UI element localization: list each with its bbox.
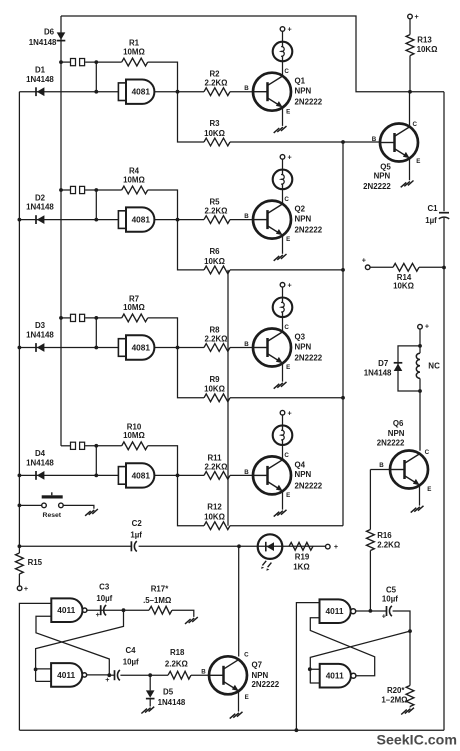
wire C4 to R18 <box>120 673 168 677</box>
pin B Q1 <box>244 85 249 92</box>
label C2 value <box>130 530 142 539</box>
wire R20 to ground <box>409 707 411 708</box>
svg-text:10KΩ: 10KΩ <box>204 257 225 266</box>
junction reset rail <box>18 504 22 508</box>
resistor R15 <box>15 553 23 574</box>
svg-text:NPN: NPN <box>252 671 269 680</box>
svg-text:10KΩ: 10KΩ <box>204 513 225 522</box>
wire Q6 base feed <box>370 469 390 471</box>
wire R13 to junction <box>408 56 412 94</box>
svg-text:2N2222: 2N2222 <box>363 182 391 191</box>
svg-text:D3: D3 <box>35 321 46 330</box>
wire emitter lead Q2 <box>282 235 284 254</box>
capacitor C1 1uf <box>439 213 449 219</box>
svg-text:NPN: NPN <box>295 87 312 96</box>
capacitor C2 1uf <box>131 541 136 551</box>
svg-text:Q4: Q4 <box>295 460 306 469</box>
lamp stage3 <box>273 298 293 318</box>
wire node drop stage2 <box>94 190 98 222</box>
label R19 value <box>293 562 309 571</box>
label R18 <box>170 648 185 657</box>
label Q7 NPN <box>252 671 269 680</box>
wire D7 branch <box>398 346 420 391</box>
wire C2 to LED <box>139 544 328 548</box>
ground reset <box>85 509 98 516</box>
svg-text:4011: 4011 <box>57 605 75 615</box>
wire output drop stage4 <box>178 475 205 525</box>
label Reset <box>43 512 62 519</box>
svg-text:R17*: R17* <box>151 585 169 594</box>
label R18 value <box>165 660 188 669</box>
label D4 value <box>26 459 54 468</box>
diode D6 <box>57 32 66 40</box>
svg-text:E: E <box>245 694 249 701</box>
svg-text:E: E <box>427 486 431 493</box>
svg-text:Q5: Q5 <box>380 162 391 171</box>
svg-text:10MΩ: 10MΩ <box>123 431 145 440</box>
wire touch-plate bus <box>60 16 62 446</box>
resistor R3 10K <box>204 138 230 146</box>
svg-text:D6: D6 <box>44 28 55 37</box>
svg-text:4081: 4081 <box>132 470 151 480</box>
nand-gate 4011 U1a <box>51 598 87 622</box>
resistor R2 2.2K <box>204 88 230 96</box>
svg-text:Q2: Q2 <box>295 205 306 214</box>
svg-text:1µf: 1µf <box>425 216 437 225</box>
label R13 value <box>417 45 438 54</box>
svg-text:1KΩ: 1KΩ <box>293 562 309 571</box>
resistor R18 2.2K <box>168 671 191 679</box>
wire lamp top lead stage2 <box>282 159 284 169</box>
wire base feed stage4 <box>230 474 253 476</box>
terminal R19 <box>326 542 339 551</box>
wire plate to node stage4 <box>85 444 122 448</box>
svg-text:+: + <box>24 584 28 593</box>
svg-text:R14: R14 <box>397 273 412 282</box>
wire cross link to U2b <box>310 631 410 683</box>
diode D2 1N4148 <box>36 215 44 224</box>
svg-text:NPN: NPN <box>388 429 405 438</box>
terminal R13 supply <box>408 12 419 21</box>
resistor R12 10K <box>204 522 230 530</box>
resistor R13 10K <box>406 35 414 56</box>
wire lamp top lead stage1 <box>282 31 284 41</box>
ground R17 <box>185 617 198 624</box>
wire touch plate feed stage3 <box>61 317 70 319</box>
svg-text:+: + <box>105 675 109 684</box>
label C1 value <box>425 216 437 225</box>
label R10 <box>127 422 142 431</box>
wire right-side rail lower <box>443 218 445 730</box>
label D6 value 1N4148 <box>29 38 57 47</box>
svg-text:1N4148: 1N4148 <box>26 75 54 84</box>
svg-text:C: C <box>244 652 249 659</box>
label Q4 2N2222 <box>295 481 323 490</box>
label C5 value <box>382 594 398 603</box>
svg-text:+: + <box>382 611 386 620</box>
wire feedback to output stage4 <box>148 446 178 476</box>
svg-text:1N4148: 1N4148 <box>158 698 186 707</box>
nand-gate 4011 U2a <box>320 599 356 623</box>
label Q5 NPN <box>374 171 391 180</box>
label D3 <box>35 321 46 330</box>
label Q7 2N2222 <box>252 680 280 689</box>
label Q2 2N2222 <box>295 226 323 235</box>
label R5 value <box>205 207 228 216</box>
resistor R4 10M feedback <box>122 186 148 194</box>
svg-text:2N2222: 2N2222 <box>377 439 405 448</box>
svg-text:10MΩ: 10MΩ <box>123 47 145 56</box>
junction touch bus stage1 <box>59 60 63 64</box>
svg-text:E: E <box>286 364 290 371</box>
svg-text:C: C <box>284 68 289 75</box>
svg-text:B: B <box>244 469 249 476</box>
wire R14 left lead <box>370 266 393 268</box>
diode D1 1N4148 <box>36 87 44 96</box>
resistor R10 10M feedback <box>122 442 148 450</box>
label Q1 NPN <box>295 87 312 96</box>
label C3 value <box>96 594 112 603</box>
svg-text:+: + <box>334 542 338 551</box>
resistor R6 10K <box>204 266 230 274</box>
svg-text:Q6: Q6 <box>393 419 404 428</box>
wire lamp to collector stage4 <box>282 445 284 460</box>
ground emitter Q1 <box>274 126 287 133</box>
wire lamp to collector stage3 <box>282 317 284 332</box>
label Q4 <box>295 460 306 469</box>
label D7 value <box>364 369 392 378</box>
label Q2 <box>295 205 306 214</box>
wire U1b input stubs <box>36 669 52 682</box>
wire Q7 collector <box>238 546 240 656</box>
wire relay top lead <box>418 329 422 353</box>
pin E Q7 <box>245 694 249 701</box>
svg-text:D1: D1 <box>35 65 46 74</box>
wire plate to node stage1 <box>85 60 122 64</box>
junction C2 node <box>18 544 22 548</box>
svg-text:2N2222: 2N2222 <box>295 481 323 490</box>
label R5 <box>209 198 220 207</box>
lamp stage4 <box>273 425 293 445</box>
svg-text:1N4148: 1N4148 <box>364 369 392 378</box>
wire gate output stage2 <box>154 218 204 222</box>
label Q7 <box>252 661 263 670</box>
label R13 <box>417 35 432 44</box>
label R8 value <box>205 335 228 344</box>
label R3 value <box>204 129 225 138</box>
svg-text:2.2KΩ: 2.2KΩ <box>205 207 228 216</box>
label Q6 2N2222 <box>377 439 405 448</box>
svg-text:2.2KΩ: 2.2KΩ <box>205 79 228 88</box>
svg-text:C: C <box>284 452 289 459</box>
ground Q7 emitter <box>230 712 243 719</box>
wire Q5 collector lead <box>409 92 411 127</box>
svg-text:R12: R12 <box>207 503 222 512</box>
wire R15 top lead <box>18 546 20 553</box>
junction left rail stage3 <box>18 346 22 350</box>
pin B Q4 <box>244 469 249 476</box>
label R15 <box>28 558 43 567</box>
wire stage3 bus link <box>230 396 345 400</box>
wire R16 upper lead <box>369 470 371 530</box>
svg-text:R9: R9 <box>209 375 220 384</box>
resistor R17 .5-1M <box>149 606 172 614</box>
wire U2a lower input link <box>310 618 374 676</box>
svg-text:B: B <box>201 668 206 675</box>
svg-text:10KΩ: 10KΩ <box>204 129 225 138</box>
svg-text:4081: 4081 <box>132 87 151 97</box>
touch plates stage3 <box>71 314 85 321</box>
svg-text:2N2222: 2N2222 <box>295 98 323 107</box>
label Q3 2N2222 <box>295 354 323 363</box>
pin E Q6 <box>427 486 431 493</box>
wire R16 lower lead <box>369 551 371 611</box>
wire diode input stage4 <box>19 474 118 476</box>
wire node drop stage4 <box>94 446 98 478</box>
capacitor C5 10uf <box>382 606 392 621</box>
wire C2 left <box>19 545 131 547</box>
wire top supply rail <box>61 16 444 92</box>
svg-text:+: + <box>287 153 291 162</box>
label R2 value <box>205 79 228 88</box>
label R11 value <box>205 462 228 471</box>
capacitor C4 10uf <box>105 670 120 684</box>
label Q5 <box>380 162 391 171</box>
diode D5 1N4148 <box>146 675 155 698</box>
junction left rail stage4 <box>18 474 22 478</box>
wire diode input stage2 <box>19 219 118 221</box>
label D6 <box>44 28 55 37</box>
resistor R14 10K <box>393 263 419 271</box>
lamp stage1 <box>273 42 293 62</box>
svg-text:10MΩ: 10MΩ <box>123 303 145 312</box>
wire Q5 emitter lead <box>409 158 411 180</box>
svg-text:R16: R16 <box>377 531 392 540</box>
svg-text:2.2KΩ: 2.2KΩ <box>165 660 188 669</box>
svg-text:E: E <box>286 492 290 499</box>
transistor Q1 NPN 2N2222 <box>253 73 291 111</box>
svg-text:+: + <box>96 610 100 619</box>
wire touch plate feed stage2 <box>61 189 70 191</box>
wire U2a top input <box>295 603 320 733</box>
ground Q6 emitter <box>411 506 424 513</box>
svg-text:10KΩ: 10KΩ <box>204 385 225 394</box>
svg-text:C: C <box>284 324 289 331</box>
label D4 <box>35 449 46 458</box>
svg-text:NPN: NPN <box>295 470 312 479</box>
pin C Q1 <box>284 68 289 75</box>
label Q5 2N2222 <box>363 182 391 191</box>
junction touch bus stage3 <box>59 316 63 320</box>
svg-text:2.2KΩ: 2.2KΩ <box>377 541 400 550</box>
svg-text:C4: C4 <box>125 646 136 655</box>
pin C Q3 <box>284 324 289 331</box>
svg-text:D5: D5 <box>163 687 174 696</box>
svg-text:4011: 4011 <box>57 670 75 680</box>
svg-text:+: + <box>287 408 291 417</box>
transistor Q6 NPN 2N2222 <box>390 451 428 489</box>
wire feedback to output stage2 <box>148 190 178 220</box>
label C4 value <box>123 658 139 667</box>
label D5 value <box>158 698 186 707</box>
wire R13 top lead <box>409 19 411 35</box>
label R14 value <box>393 282 414 291</box>
resistor R1 10M feedback <box>122 58 148 66</box>
pin E Q3 <box>286 364 290 371</box>
wire emitter lead Q4 <box>282 491 284 510</box>
wire Q7 emitter lead <box>238 691 240 712</box>
ground R20 <box>401 708 414 715</box>
switch Reset <box>42 492 64 507</box>
and-gate 4081 stage1 <box>118 80 154 104</box>
resistor R5 2.2K <box>204 216 230 224</box>
relay coil NC <box>416 353 420 378</box>
label R10 value <box>123 431 145 440</box>
svg-text:R13: R13 <box>417 35 432 44</box>
label R12 value <box>204 513 225 522</box>
ground D5 <box>141 707 154 714</box>
lamp stage2 <box>273 170 293 190</box>
junction U1b input <box>34 668 38 672</box>
wire C5 to R20 <box>393 611 412 686</box>
terminal lamp supply stage4 <box>280 408 292 417</box>
wire U1a lower input link <box>36 616 109 675</box>
transistor Q5 NPN 2N2222 <box>380 124 418 162</box>
pin C Q7 <box>244 652 249 659</box>
svg-text:1N4148: 1N4148 <box>26 331 54 340</box>
transistor Q3 NPN 2N2222 <box>253 329 291 367</box>
label R7 value <box>123 303 145 312</box>
touch plates stage1 <box>71 59 85 66</box>
wire reset right <box>63 505 94 508</box>
terminal R14 <box>362 256 370 270</box>
wire output drop stage2 <box>178 220 205 270</box>
label R1 <box>129 39 140 48</box>
svg-text:10KΩ: 10KΩ <box>393 282 414 291</box>
svg-text:C2: C2 <box>132 519 143 528</box>
wire touch plate feed stage1 <box>61 61 70 63</box>
pin E Q2 <box>286 236 290 243</box>
pin B Q7 <box>201 668 206 675</box>
svg-text:B: B <box>244 341 249 348</box>
label C2 <box>132 519 143 528</box>
diode D7 1N4148 <box>394 363 403 371</box>
ground emitter Q3 <box>274 382 287 389</box>
label Q6 NPN <box>388 429 405 438</box>
resistor R19 1K <box>289 542 313 550</box>
label D1 <box>35 65 46 74</box>
svg-text:1N4148: 1N4148 <box>26 203 54 212</box>
pin E Q4 <box>286 492 290 499</box>
terminal lamp supply stage1 <box>280 25 292 34</box>
label R16 value <box>377 541 400 550</box>
svg-text:10MΩ: 10MΩ <box>123 175 145 184</box>
and-gate 4081 stage4 <box>118 463 154 487</box>
label Q4 NPN <box>295 470 312 479</box>
terminal R15 <box>17 584 28 593</box>
svg-text:4081: 4081 <box>132 342 151 352</box>
svg-text:SeekIC.com: SeekIC.com <box>377 733 457 749</box>
label R1 value <box>123 47 145 56</box>
wire lamp to collector stage2 <box>282 189 284 204</box>
svg-text:R11: R11 <box>207 453 222 462</box>
resistor R9 10K <box>204 394 230 402</box>
svg-text:+: + <box>414 12 418 21</box>
wire output drop stage3 <box>178 348 205 398</box>
svg-text:2N2222: 2N2222 <box>295 354 323 363</box>
resistor R16 2.2K <box>367 530 375 551</box>
svg-text:C3: C3 <box>99 582 110 591</box>
terminal relay supply <box>418 321 429 330</box>
wire cross link C3 to U1b <box>36 610 124 681</box>
label R11 <box>207 453 222 462</box>
label Q1 2N2222 <box>295 98 323 107</box>
label R16 <box>377 531 392 540</box>
label C4 <box>125 646 136 655</box>
svg-text:E: E <box>286 236 290 243</box>
svg-text:+: + <box>287 280 291 289</box>
touch plates stage4 <box>71 442 85 449</box>
pin C Q4 <box>284 452 289 459</box>
wire emitter lead Q3 <box>282 363 284 382</box>
svg-text:10µf: 10µf <box>123 658 139 667</box>
svg-text:B: B <box>244 213 249 220</box>
svg-text:Q7: Q7 <box>252 661 263 670</box>
svg-text:R6: R6 <box>209 247 220 256</box>
svg-text:1µf: 1µf <box>130 530 142 539</box>
wire gate output stage1 <box>154 90 204 94</box>
wire R18 to Q7 base <box>191 674 209 676</box>
label D2 value <box>26 203 54 212</box>
svg-text:R10: R10 <box>127 422 142 431</box>
label R20 <box>387 686 405 695</box>
svg-text:C: C <box>425 449 430 456</box>
label R8 <box>209 326 220 335</box>
wire gate output stage4 <box>154 474 204 478</box>
svg-text:R18: R18 <box>170 648 185 657</box>
wire diode input stage1 <box>19 91 118 93</box>
svg-text:E: E <box>416 158 420 165</box>
transistor Q4 NPN 2N2222 <box>253 456 291 494</box>
svg-text:+: + <box>425 321 429 330</box>
wire base feed stage1 <box>230 91 253 93</box>
pin B Q5 <box>372 136 377 143</box>
wire gate output stage3 <box>154 346 204 350</box>
label Q2 NPN <box>295 214 312 223</box>
svg-text:.5–1MΩ: .5–1MΩ <box>143 596 171 605</box>
label R2 <box>209 70 220 79</box>
svg-text:4011: 4011 <box>326 606 344 616</box>
wire U1a output <box>87 608 149 612</box>
resistor R11 2.2K <box>204 472 230 480</box>
terminal lamp supply stage2 <box>280 153 292 162</box>
label D7 <box>378 359 389 368</box>
ground emitter Q4 <box>274 510 287 517</box>
svg-text:10KΩ: 10KΩ <box>417 45 438 54</box>
label R9 value <box>204 385 225 394</box>
touch plates stage2 <box>71 186 85 193</box>
wire R15 bottom lead <box>18 574 20 586</box>
and-gate 4081 stage2 <box>118 207 154 231</box>
svg-text:NC: NC <box>428 362 440 371</box>
svg-text:1N4148: 1N4148 <box>29 38 57 47</box>
svg-text:NPN: NPN <box>295 342 312 351</box>
svg-text:1–2MΩ: 1–2MΩ <box>381 695 407 704</box>
wire stage1 bus to Q5 <box>230 140 380 144</box>
svg-text:NPN: NPN <box>374 171 391 180</box>
pin B Q3 <box>244 341 249 348</box>
svg-text:B: B <box>379 462 384 469</box>
